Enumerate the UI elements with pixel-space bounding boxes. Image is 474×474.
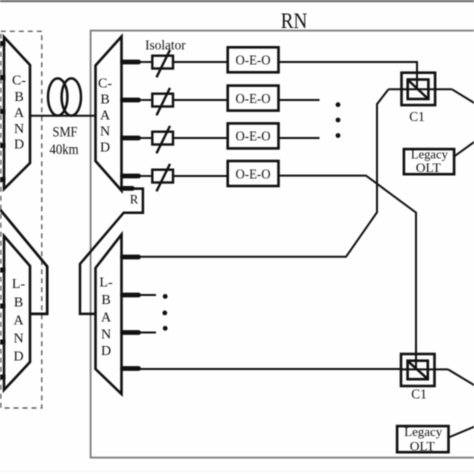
Legacy OLT bottom box <box>397 424 448 453</box>
AWG L-BAND left (OLT side) <box>4 236 30 390</box>
dashed OLT-side box <box>1 31 42 408</box>
ports of left C-BAND AWG <box>0 44 6 180</box>
isolator 1 <box>140 50 228 77</box>
svg-text:D: D <box>101 344 111 359</box>
svg-text:O-E-O: O-E-O <box>236 53 271 68</box>
svg-text:C1: C1 <box>409 109 425 124</box>
svg-text:Isolator: Isolator <box>145 37 186 52</box>
O-E-O box 4 <box>228 161 279 186</box>
svg-text:OLT: OLT <box>416 160 441 175</box>
AWG C-BAND left (OLT side) <box>4 37 30 189</box>
svg-text:B: B <box>14 90 23 105</box>
svg-text:O-E-O: O-E-O <box>236 129 271 144</box>
AWG C-BAND in RN <box>96 37 122 191</box>
Legacy OLT top box <box>404 147 454 176</box>
svg-text:O-E-O: O-E-O <box>236 91 271 106</box>
svg-text:Legacy: Legacy <box>404 424 442 439</box>
circulator C1 bottom <box>401 354 435 386</box>
ellipsis dots between rows 2-3 <box>336 102 341 138</box>
svg-text:D: D <box>100 141 110 156</box>
ports of RN C-BAND AWG (rows 1-4) <box>123 62 139 188</box>
svg-text:D: D <box>13 350 23 365</box>
svg-text:B: B <box>100 93 109 108</box>
svg-text:D: D <box>14 138 24 153</box>
wire O-E-O4 to C1 bottom circulator <box>279 176 417 370</box>
svg-text:A: A <box>101 311 112 326</box>
svg-text:B: B <box>101 293 110 308</box>
label C-BAND (left) <box>12 74 26 153</box>
svg-text:R: R <box>130 192 139 206</box>
isolator 2 <box>140 88 228 115</box>
RN box <box>91 31 474 458</box>
circulator C1 top <box>402 73 436 105</box>
isolator 3 <box>140 126 228 153</box>
R box (open-left) + staircase to RN L-AWG input <box>80 189 143 314</box>
svg-text:A: A <box>100 109 111 124</box>
wire: left C-AWG output to RN C-AWG input (SMF span) <box>30 115 96 117</box>
svg-text:C-: C- <box>12 74 26 89</box>
svg-text:N: N <box>100 125 110 140</box>
wire Legacy OLT bottom to right edge <box>449 427 474 438</box>
svg-text:L-: L- <box>99 275 113 290</box>
isolator 4 <box>140 164 228 191</box>
svg-text:40km: 40km <box>50 142 79 158</box>
label C-BAND (RN) <box>98 77 112 156</box>
wire Legacy OLT top to right edge <box>454 142 474 157</box>
wire C1 bottom to right edge <box>448 369 474 385</box>
svg-text:N: N <box>14 122 24 137</box>
svg-text:OLT: OLT <box>410 439 435 454</box>
bottom faint figure border <box>0 471 474 472</box>
wire L-AWG port1 to C1 top (riser) <box>140 89 389 256</box>
svg-text:A: A <box>13 314 24 329</box>
label L-BAND (left) <box>12 277 26 364</box>
fiber coil SMF <box>48 78 81 115</box>
O-E-O box 3 <box>228 123 279 148</box>
wire through C1 top <box>389 88 453 90</box>
AWG L-BAND in RN <box>96 235 122 395</box>
svg-text:N: N <box>101 328 111 343</box>
label L-BAND (RN) <box>99 275 113 359</box>
O-E-O box 1 <box>228 47 279 72</box>
O-E-O box 2 <box>228 86 279 111</box>
svg-text:A: A <box>14 106 25 121</box>
wire L port2 stub <box>140 294 156 296</box>
ellipsis dots between L rows 2-3 <box>162 294 167 331</box>
wire through C1 bottom <box>401 368 448 370</box>
ports of RN L-BAND AWG <box>123 257 139 369</box>
wire O-E-O3 stub <box>279 137 320 139</box>
svg-text:C-: C- <box>98 77 112 92</box>
svg-text:B: B <box>14 296 23 311</box>
svg-text:O-E-O: O-E-O <box>236 166 271 181</box>
wire C1 top to right edge <box>452 89 474 103</box>
svg-text:L-: L- <box>12 277 26 292</box>
wire L port3 stub <box>140 332 156 334</box>
top figure border <box>0 0 474 2</box>
port 5 (R port) <box>123 186 133 191</box>
ports of left L-BAND AWG <box>0 270 6 377</box>
svg-text:C1: C1 <box>411 386 427 401</box>
wire L-AWG port4 to C1 bottom <box>140 368 401 370</box>
svg-text:SMF: SMF <box>53 124 78 140</box>
svg-text:N: N <box>13 332 23 347</box>
wire O-E-O1 to C1 top circulator <box>279 62 418 89</box>
svg-text:RN: RN <box>281 8 308 33</box>
wire O-E-O2 stub <box>279 99 320 101</box>
wire: left L-AWG output staircase to off-image left <box>0 210 47 314</box>
